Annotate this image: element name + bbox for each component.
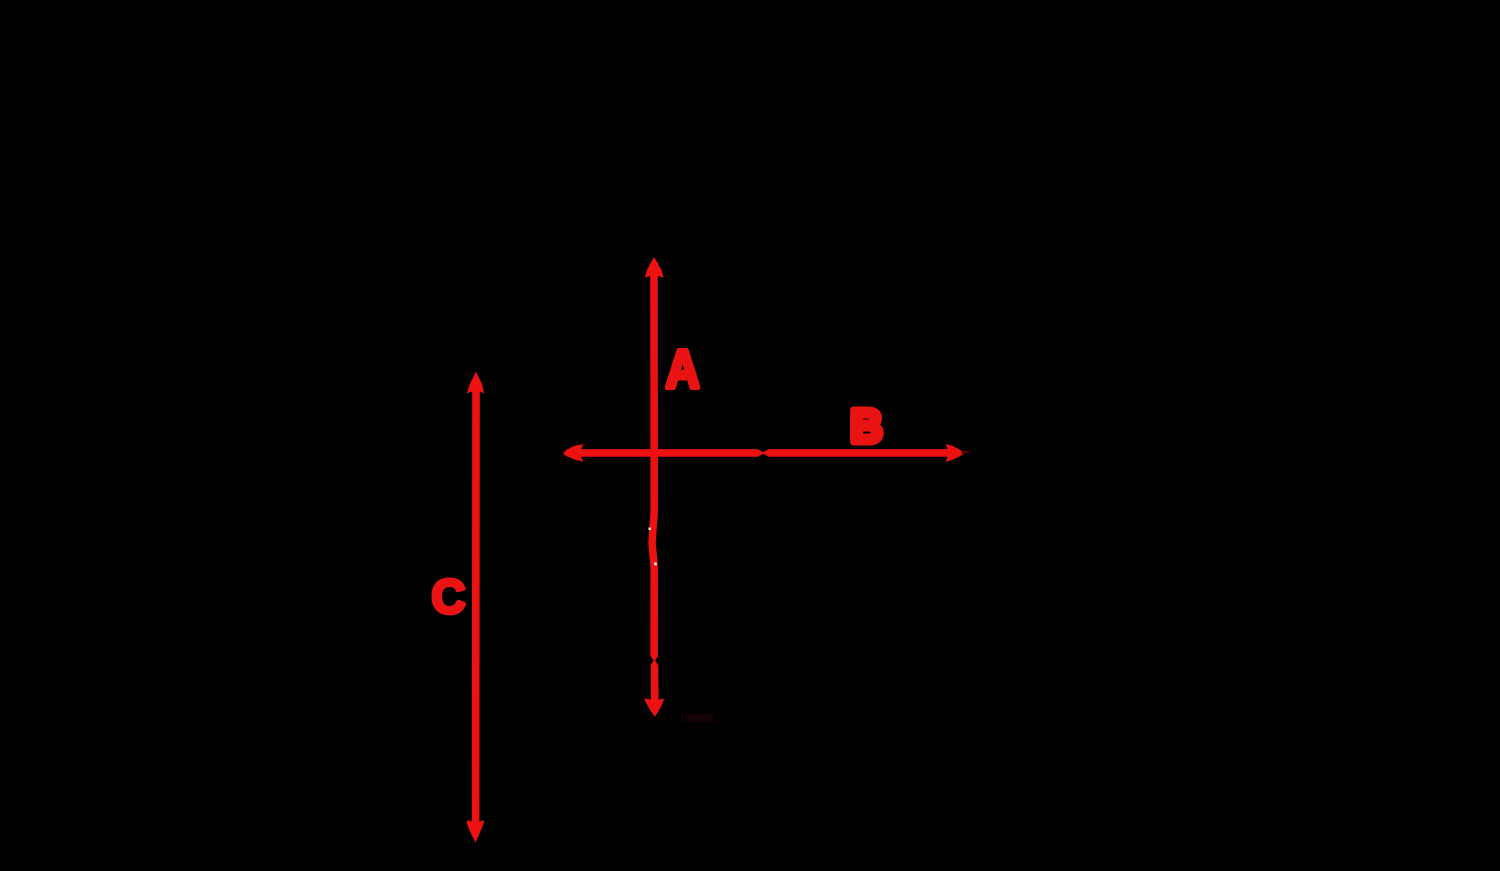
arrow C upper arrowhead xyxy=(467,372,484,395)
arrow A taper pinch xyxy=(650,655,659,665)
arrow A wobble specks xyxy=(649,528,657,566)
arrow B left arrowhead xyxy=(564,444,584,462)
arrow B taper pinch xyxy=(757,449,770,458)
svg-text:B: B xyxy=(851,400,883,452)
arrow A lower arrowhead xyxy=(644,698,663,716)
arrow B right arrowhead xyxy=(945,444,963,462)
arrow A shaft xyxy=(652,262,655,712)
arrow C shaft xyxy=(472,388,480,824)
arrow B right faint tail xyxy=(961,451,970,454)
faint residue marks lower area xyxy=(650,714,714,723)
svg-text:A: A xyxy=(666,338,700,399)
svg-text:C: C xyxy=(432,571,466,625)
arrow A upper arrowhead xyxy=(645,257,664,279)
arrow B shaft xyxy=(567,449,958,457)
arrow C lower arrowhead xyxy=(467,820,485,842)
